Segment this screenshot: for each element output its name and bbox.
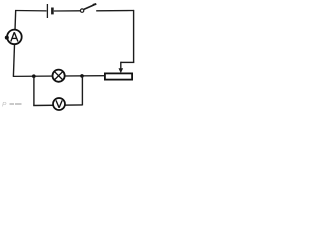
watermark	[2, 102, 22, 109]
voltmeter branch left vertical wire	[33, 76, 35, 105]
wire left vertical	[13, 10, 15, 76]
voltmeter branch bottom wire	[33, 104, 82, 107]
voltmeter branch right vertical wire	[81, 76, 83, 106]
rheostat wiper arrowhead	[119, 68, 124, 73]
node junction right	[80, 74, 84, 78]
node junction left	[32, 74, 36, 78]
rheostat R body	[105, 73, 132, 79]
ammeter A	[5, 30, 22, 45]
switch S pivot	[80, 9, 83, 12]
wire switch to top-right corner	[96, 10, 134, 12]
wire top-left horizontal	[15, 10, 47, 12]
lamp L1	[53, 70, 65, 82]
wire bottom main	[13, 75, 105, 78]
rheostat wiper shaft	[120, 62, 122, 70]
switch S blade	[84, 5, 94, 9]
voltmeter V	[53, 98, 65, 110]
wire right vertical	[133, 10, 135, 63]
switch S blade tip	[93, 4, 97, 5]
svg-text:P: P	[2, 102, 7, 109]
wire battery to switch	[54, 10, 81, 12]
battery B1 short plate	[51, 8, 54, 15]
battery B1 long plate	[46, 4, 48, 18]
wire jog to wiper	[121, 61, 135, 63]
